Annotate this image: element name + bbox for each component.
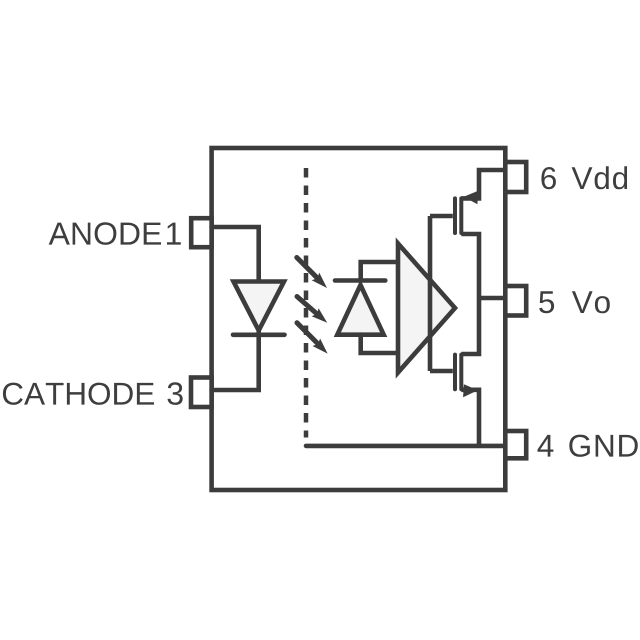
pin number 6 bbox=[541, 167, 556, 189]
photodiode D2 cathode bar bbox=[335, 278, 385, 283]
pin number 1 bbox=[167, 223, 181, 245]
label ANODE bbox=[49, 222, 161, 245]
pin number 5 bbox=[539, 291, 554, 313]
pin 6 box (Vdd) bbox=[505, 162, 526, 192]
wire gate of Q2 (bottom) bbox=[430, 369, 453, 374]
label Vo bbox=[572, 291, 610, 313]
label GND bbox=[569, 435, 638, 457]
Q1 source arrow (p-channel) bbox=[464, 191, 479, 205]
light arrow 3 bbox=[297, 323, 318, 344]
wire Q1 drain to output node to Q2 drain bbox=[461, 234, 479, 354]
transistor Q2 gate bar bbox=[453, 355, 457, 390]
light arrow 2 bbox=[297, 297, 317, 314]
pin 4 box (GND) bbox=[505, 431, 526, 458]
wire gate of Q1 (top) bbox=[430, 214, 453, 219]
op-amp U1 amplifier triangle bbox=[398, 244, 455, 373]
wire gate bus vertical (through amp) bbox=[428, 216, 433, 371]
GND rail wire bbox=[306, 444, 505, 449]
wire photodiode anode to amp (bottom) bbox=[361, 335, 398, 353]
light arrow 1 bbox=[297, 258, 317, 278]
package outline bbox=[212, 148, 506, 490]
pin 1 box (ANODE) bbox=[191, 218, 211, 247]
LED D1 cathode bar bbox=[233, 332, 285, 337]
pin 3 box (CATHODE) bbox=[191, 378, 212, 408]
wire anode pin1 to LED anode bbox=[212, 227, 259, 283]
wire photodiode cathode to amp input (top) bbox=[361, 262, 398, 280]
Q2 source arrow (n-channel) bbox=[463, 384, 478, 397]
pin number 3 bbox=[168, 382, 183, 405]
transistor Q2 channel bar bbox=[459, 355, 463, 390]
wire Q1 source to Vdd pin 6 bbox=[461, 170, 505, 198]
LED D1 triangle (anode) bbox=[234, 282, 285, 331]
label CATHODE bbox=[3, 383, 154, 405]
pin number 4 bbox=[538, 435, 554, 457]
wire Q2 source to GND bbox=[461, 390, 479, 446]
optical isolation barrier (dashed) bbox=[304, 168, 309, 438]
transistor Q1 channel bar bbox=[459, 198, 463, 233]
transistor Q1 gate bar bbox=[453, 198, 457, 233]
label Vdd bbox=[572, 166, 628, 189]
pin 5 box (Vo) bbox=[505, 286, 526, 316]
photodiode D2 triangle bbox=[337, 285, 383, 335]
wire LED cathode to pin3 bbox=[212, 332, 259, 390]
wire output node to pin 5 bbox=[479, 296, 505, 301]
